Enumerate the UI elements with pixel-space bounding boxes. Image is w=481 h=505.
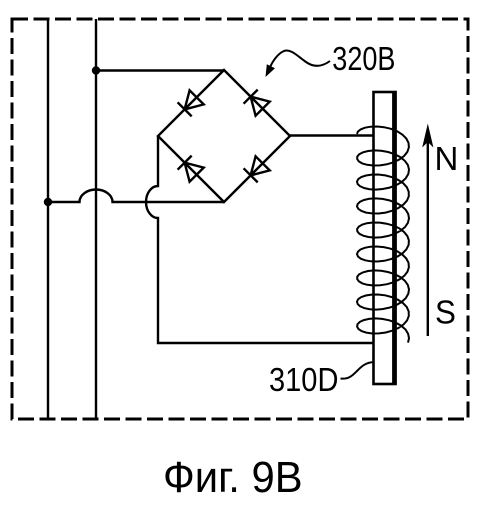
junction node on rail L2 bbox=[92, 66, 100, 74]
diode D2 (top-right arm of bridge) bbox=[244, 90, 270, 116]
leader line from label 310D to core bar bbox=[341, 362, 375, 379]
wire from rail L1 to bridge bottom vertex, hopping over rail L2 bbox=[48, 190, 224, 203]
dashed enclosure border bbox=[12, 19, 468, 419]
magnetic core bar 310D bbox=[374, 92, 396, 384]
AC supply rail L2 (wire) bbox=[95, 19, 97, 419]
diode D4 (bottom-right arm of bridge) bbox=[244, 156, 270, 182]
diode bridge 320B diamond outline bbox=[158, 70, 290, 202]
core bar thick right edge bbox=[392, 91, 397, 385]
magnetisation direction arrow shaft bbox=[427, 134, 429, 336]
wire from bridge left vertex down (hops over lower AC wire) then right to coil bottom bbox=[146, 136, 394, 343]
diode D1 (top-left arm of bridge) bbox=[178, 90, 204, 116]
svg-text:Фиг. 9В: Фиг. 9В bbox=[163, 453, 303, 500]
wire from bridge right vertex to coil top bbox=[290, 134, 374, 136]
leader arrow head for 320B bbox=[266, 64, 276, 77]
svg-text:S: S bbox=[435, 294, 456, 331]
leader arrow from label 320B to bridge bbox=[270, 51, 331, 69]
svg-text:N: N bbox=[435, 140, 459, 177]
wire from rail L2 to bridge top vertex bbox=[96, 69, 224, 71]
svg-text:320B: 320B bbox=[332, 42, 395, 78]
solenoid coil winding around core bbox=[357, 127, 409, 343]
svg-text:310D: 310D bbox=[269, 361, 338, 398]
AC supply rail L1 (wire) bbox=[47, 19, 49, 419]
magnetisation arrow head bbox=[422, 124, 433, 148]
diode D3 (bottom-left arm of bridge) bbox=[178, 156, 204, 182]
junction node on rail L1 bbox=[44, 198, 52, 206]
